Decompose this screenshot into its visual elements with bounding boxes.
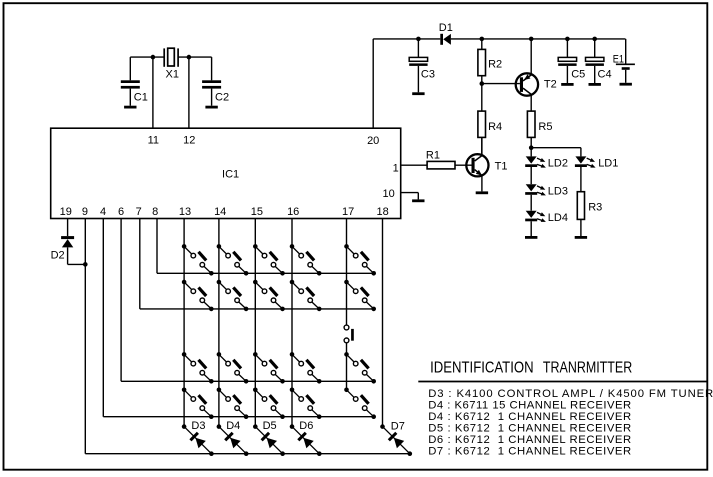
label R1 <box>426 149 440 161</box>
svg-text:D4: D4 <box>226 420 240 432</box>
wire T2 emitter up <box>530 39 532 75</box>
ground pin 10 <box>412 199 424 202</box>
switch row4 col14 <box>217 388 249 420</box>
pin 15 label <box>251 206 263 218</box>
transistor T1 <box>466 154 488 176</box>
svg-text:LD1: LD1 <box>598 158 618 170</box>
label IC1 <box>222 169 239 181</box>
switch row1 col17 <box>344 244 376 276</box>
label T2 <box>544 78 557 90</box>
wire pin 9 <box>84 219 86 454</box>
switch row2 col17 <box>344 280 376 312</box>
switch row3 col15 <box>253 352 285 384</box>
legend line 6 <box>428 446 631 458</box>
wire bottom return <box>85 453 410 455</box>
node C5 rail <box>565 37 570 42</box>
svg-text:C3: C3 <box>421 68 435 80</box>
label LD3 <box>548 185 568 197</box>
ground under C5 <box>561 83 573 86</box>
pin 19 label <box>60 206 72 218</box>
resistor R5 <box>527 111 535 148</box>
wire column 14 <box>218 219 220 427</box>
resistor R3 <box>577 192 584 236</box>
wire column 17 upper <box>346 219 348 326</box>
transistor T2 <box>516 73 538 95</box>
diode D3 <box>182 424 214 456</box>
crystal X1 <box>164 48 178 67</box>
wire pin 1 <box>401 164 427 166</box>
svg-text:9: 9 <box>82 206 88 218</box>
wire T2 base <box>482 83 520 85</box>
label D3 <box>191 420 205 432</box>
svg-text:D4 : K6712 1 CHANNEL RECEIVER: D4 : K6712 1 CHANNEL RECEIVER <box>428 411 631 423</box>
wire pin 10 <box>401 193 419 200</box>
svg-text:LD4: LD4 <box>548 212 568 224</box>
wire row 4 <box>103 416 373 418</box>
svg-text:D6: D6 <box>299 420 313 432</box>
ground under LD4 <box>525 236 537 239</box>
diode D7 <box>380 424 412 456</box>
svg-text:17: 17 <box>342 206 354 218</box>
svg-text:D7 : K6712 1 CHANNEL RECEIVER: D7 : K6712 1 CHANNEL RECEIVER <box>428 446 631 458</box>
switch row3 col17 <box>344 352 376 384</box>
svg-text:8: 8 <box>152 206 158 218</box>
switch row2 col13 <box>182 280 214 312</box>
switch row2 col14 <box>217 280 249 312</box>
svg-text:D3 : K4100 CONTROL AMPL / K450: D3 : K4100 CONTROL AMPL / K4500 FM TUNER <box>428 388 713 400</box>
svg-text:1: 1 <box>393 162 399 174</box>
svg-text:C4: C4 <box>598 69 612 81</box>
svg-text:11: 11 <box>148 134 159 146</box>
capacitor C3 <box>409 39 427 92</box>
label C5 <box>571 69 585 81</box>
label D4 <box>226 420 240 432</box>
pin 7 label <box>136 206 142 218</box>
pin 10 label <box>383 188 395 200</box>
svg-text:X1: X1 <box>166 68 179 80</box>
svg-text:C5: C5 <box>571 69 585 81</box>
legend line 2 <box>428 399 631 411</box>
resistor R1 <box>427 161 471 169</box>
label R5 <box>538 121 552 133</box>
wire branch to LD1 <box>531 148 581 157</box>
wire LD3 to LD4 <box>530 195 532 211</box>
pin 12 label <box>183 134 195 146</box>
label LD4 <box>548 212 568 224</box>
node C3 rail <box>416 37 421 42</box>
node C4 rail <box>592 37 597 42</box>
wire pin 4 <box>102 219 104 417</box>
switch row4 col16 <box>290 388 322 420</box>
ground under C4 <box>589 83 601 86</box>
pin 11 label <box>148 134 159 146</box>
svg-text:R1: R1 <box>426 149 440 161</box>
svg-text:IDENTIFICATION: IDENTIFICATION <box>430 360 533 377</box>
label T1 <box>495 161 508 173</box>
svg-text:D5: D5 <box>263 420 277 432</box>
LED LD4 <box>525 211 546 222</box>
switch row3 col16 <box>290 352 322 384</box>
pin 1 label <box>393 162 399 174</box>
label C1 <box>134 92 148 104</box>
diode D1 <box>440 34 451 45</box>
label C3 <box>421 68 435 80</box>
label C2 <box>215 92 229 104</box>
svg-text:13: 13 <box>179 206 191 218</box>
wire oscillator top <box>130 56 211 58</box>
label LD1 <box>598 158 618 170</box>
switch row1 col14 <box>217 244 249 276</box>
node pin11 <box>151 55 156 60</box>
wire column 13 <box>183 219 185 427</box>
node D2 pin9 <box>83 262 88 267</box>
wire pin 11 <box>152 57 154 128</box>
svg-text:20: 20 <box>367 135 379 147</box>
label D2 <box>51 250 65 262</box>
wire pin 19 <box>67 219 69 237</box>
wire LD1 to R3 <box>580 167 582 192</box>
legend line 3 <box>428 411 631 423</box>
resistor R2 <box>478 39 486 84</box>
svg-text:R2: R2 <box>488 59 502 71</box>
label D1 <box>439 22 453 34</box>
svg-text:C1: C1 <box>134 92 148 104</box>
diode D6 <box>290 424 322 456</box>
wire pin 6 <box>120 219 122 382</box>
pin 4 label <box>100 206 106 218</box>
diode D5 <box>253 424 285 456</box>
wire pin 20 to rail <box>372 39 374 128</box>
wire pin 8 <box>156 219 158 274</box>
svg-text:T1: T1 <box>495 161 508 173</box>
svg-text:D1: D1 <box>439 22 453 34</box>
label D5 <box>263 420 277 432</box>
svg-text:12: 12 <box>183 134 195 146</box>
ground under R3 <box>575 236 587 239</box>
wire LD4 to ground <box>530 221 532 236</box>
svg-text:7: 7 <box>136 206 142 218</box>
wire T1 emitter down <box>481 176 483 192</box>
pin 16 label <box>287 206 299 218</box>
wire row 3 <box>121 380 374 382</box>
label LD2 <box>548 158 568 170</box>
ground under C2 <box>205 106 217 109</box>
svg-text:18: 18 <box>376 206 388 218</box>
svg-text:6: 6 <box>118 206 124 218</box>
label E1 <box>613 53 624 65</box>
svg-text:D4 : K6711 15 CHANNEL RECEIVER: D4 : K6711 15 CHANNEL RECEIVER <box>428 399 631 411</box>
svg-text:D2: D2 <box>51 250 65 262</box>
svg-text:4: 4 <box>100 206 106 218</box>
pin 6 label <box>118 206 124 218</box>
LED LD2 <box>525 156 546 167</box>
svg-text:16: 16 <box>287 206 299 218</box>
label R4 <box>488 121 502 133</box>
ground under T1 <box>476 191 488 194</box>
svg-text:D6 : K6712 1 CHANNEL RECEIVER: D6 : K6712 1 CHANNEL RECEIVER <box>428 434 631 446</box>
label R3 <box>588 202 602 214</box>
pin 18 label <box>376 206 388 218</box>
legend line 4 <box>428 422 631 434</box>
node R5 bottom <box>529 145 534 150</box>
switch row1 col16 <box>290 244 322 276</box>
wire column 15 <box>254 219 256 427</box>
svg-text:10: 10 <box>383 188 395 200</box>
legend title <box>430 360 632 377</box>
switch row1 col15 <box>253 244 285 276</box>
label D7 <box>391 421 405 433</box>
label D6 <box>299 420 313 432</box>
wire column 17 lower <box>346 343 348 390</box>
svg-text:14: 14 <box>214 206 226 218</box>
svg-text:19: 19 <box>60 206 72 218</box>
switch row4 col13 <box>182 388 214 420</box>
svg-text:T2: T2 <box>544 78 557 90</box>
wire T2 collector down <box>530 95 532 112</box>
pin 13 label <box>179 206 191 218</box>
label X1 <box>166 68 179 80</box>
switch row3 col13 <box>182 352 214 384</box>
capacitor C1 <box>121 57 140 106</box>
IC IC1 <box>51 128 401 218</box>
ground under C3 <box>412 92 424 95</box>
svg-text:D5 : K6712 1 CHANNEL RECEIVER: D5 : K6712 1 CHANNEL RECEIVER <box>428 422 631 434</box>
switch column 17 vertical <box>344 325 354 343</box>
wire LD2 to LD3 <box>530 167 532 184</box>
pin 9 label <box>82 206 88 218</box>
legend line 5 <box>428 434 631 446</box>
svg-text:R4: R4 <box>488 121 502 133</box>
legend underline <box>418 381 707 383</box>
svg-text:C2: C2 <box>215 92 229 104</box>
svg-text:D3: D3 <box>191 420 205 432</box>
pin 20 label <box>367 135 379 147</box>
label C4 <box>598 69 612 81</box>
svg-text:LD2: LD2 <box>548 158 568 170</box>
wire column 18 <box>382 219 384 427</box>
switch row4 col17 <box>344 388 376 420</box>
wire column 16 <box>291 219 293 427</box>
svg-text:E1: E1 <box>613 53 624 65</box>
svg-text:TRANRMITTER: TRANRMITTER <box>543 360 632 377</box>
svg-text:IC1: IC1 <box>222 169 239 181</box>
diode D2 <box>61 236 85 264</box>
ground under C1 <box>124 106 136 109</box>
node pin12 <box>187 55 192 60</box>
wire to LD2 <box>530 148 532 157</box>
capacitor C2 <box>202 57 221 106</box>
ground under E1 <box>620 83 632 86</box>
svg-text:R5: R5 <box>538 121 552 133</box>
wire row 2 <box>140 308 374 310</box>
pin 14 label <box>214 206 226 218</box>
diode D4 <box>217 424 249 456</box>
capacitor E1 <box>616 39 635 83</box>
capacitor C5 <box>558 39 576 83</box>
node R2 R4 base <box>480 81 485 86</box>
legend line 1 <box>428 388 713 400</box>
svg-text:R3: R3 <box>588 202 602 214</box>
switch row2 col15 <box>253 280 285 312</box>
wire pin 7 <box>139 219 141 309</box>
svg-text:D7: D7 <box>391 421 405 433</box>
wire T1 collector up <box>481 137 483 155</box>
switch row1 col13 <box>182 244 214 276</box>
switch row3 col14 <box>217 352 249 384</box>
wire pin 12 <box>188 57 190 128</box>
pin 17 label <box>342 206 354 218</box>
node R2 rail <box>480 37 485 42</box>
LED LD1 <box>575 156 596 167</box>
switch row2 col16 <box>290 280 322 312</box>
node T2 rail <box>529 37 534 42</box>
capacitor C4 <box>586 39 604 83</box>
wire rail left <box>373 38 440 40</box>
LED LD3 <box>525 184 546 195</box>
wire rail right <box>451 38 626 40</box>
wire row 1 <box>157 272 374 274</box>
switch row4 col15 <box>253 388 285 420</box>
label R2 <box>488 59 502 71</box>
svg-text:LD3: LD3 <box>548 185 568 197</box>
svg-text:15: 15 <box>251 206 263 218</box>
resistor R4 <box>478 84 486 156</box>
pin 8 label <box>152 206 158 218</box>
